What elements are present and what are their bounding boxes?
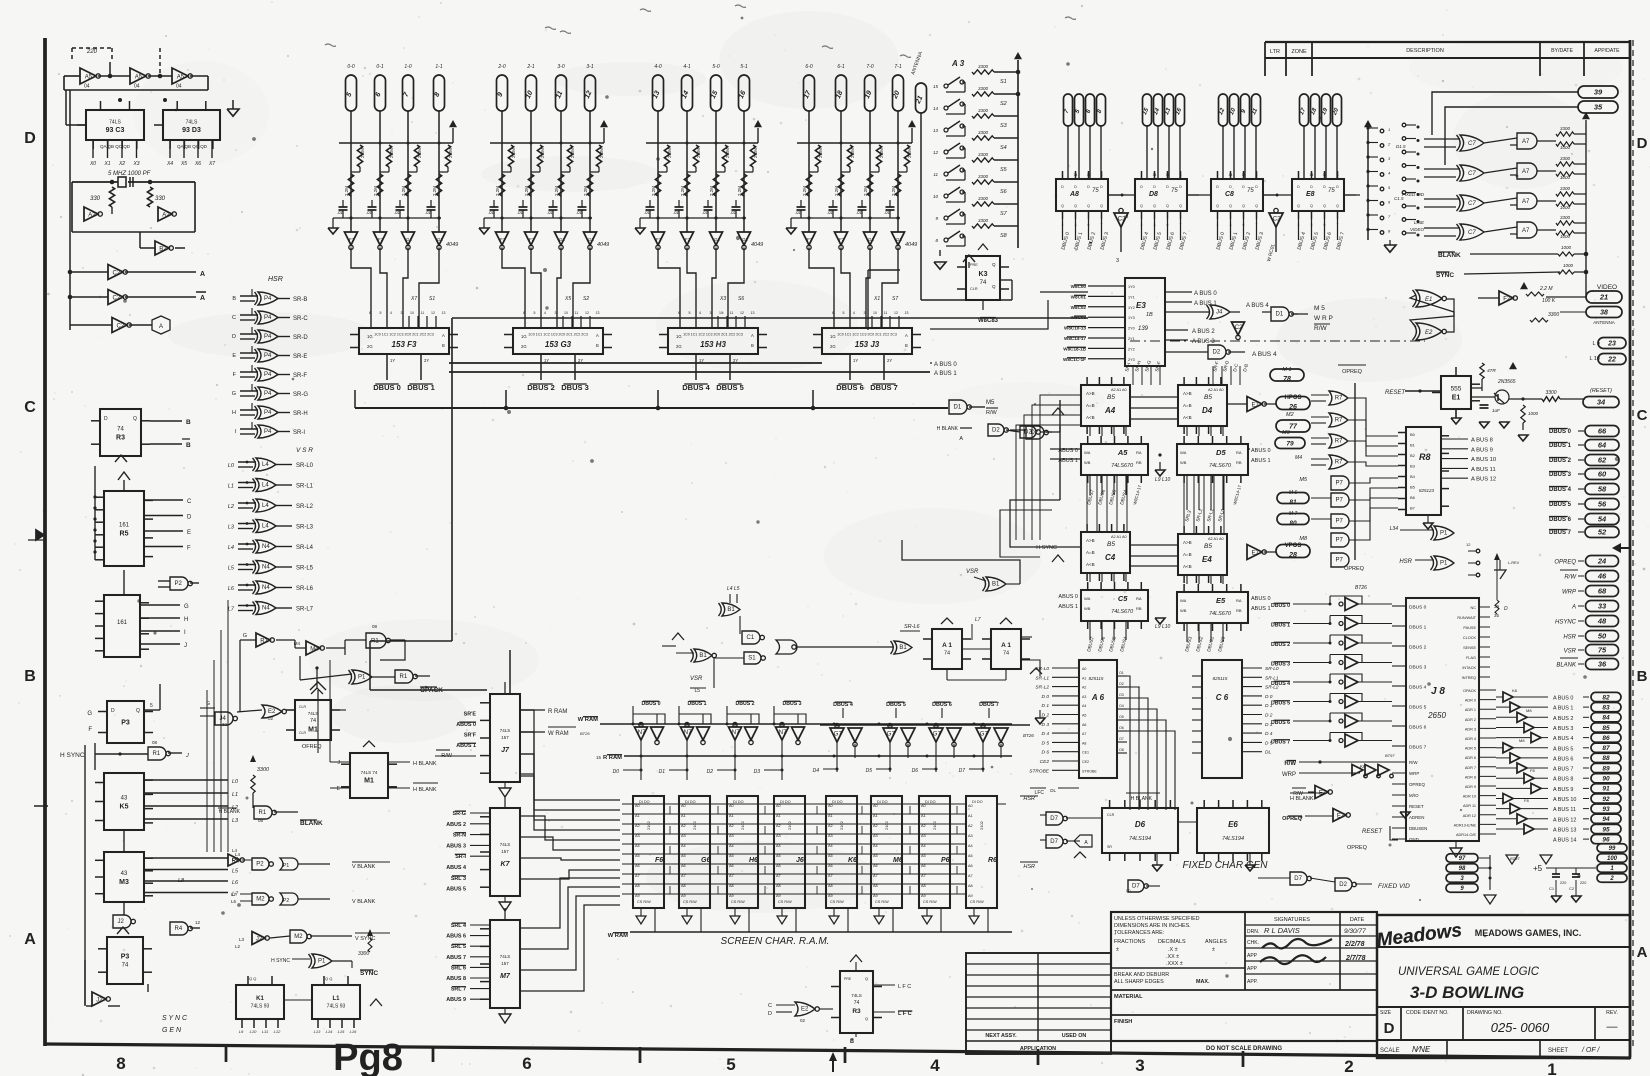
svg-text:S Y N C: S Y N C: [162, 1015, 188, 1022]
svg-text:90: 90: [1602, 776, 1610, 783]
svg-text:M5: M5: [986, 400, 995, 406]
svg-text:RA: RA: [1136, 596, 1142, 601]
svg-text:DBUS 1: DBUS 1: [1549, 443, 1572, 449]
svg-text:A2 A1 A0: A2 A1 A0: [1111, 388, 1127, 392]
svg-text:A3: A3: [635, 834, 640, 838]
svg-text:2.2M: 2.2M: [737, 186, 742, 196]
svg-text:78: 78: [1283, 376, 1291, 383]
svg-text:83: 83: [1602, 704, 1610, 711]
svg-text:SRL 7: SRL 7: [451, 987, 466, 993]
svg-text:G1: G1: [406, 237, 413, 242]
svg-text:SIGNATURES: SIGNATURES: [1274, 917, 1310, 923]
svg-text:2G: 2G: [367, 344, 373, 349]
svg-text:E7: E7: [1252, 402, 1260, 408]
svg-text:W8C83: W8C83: [978, 318, 999, 324]
svg-text:C: C: [1637, 407, 1648, 424]
svg-text:93: 93: [1602, 806, 1610, 813]
svg-text:V S R: V S R: [296, 447, 313, 454]
svg-text:SR-G: SR-G: [293, 392, 308, 398]
svg-text:BLANK: BLANK: [1438, 252, 1461, 259]
svg-text:1C0 1C1 1C2 1C3 2C0 2C1 2C2 2C: 1C0 1C1 1C2 1C3 2C0 2C1 2C2 2C3: [683, 333, 743, 337]
svg-text:F8: F8: [1530, 768, 1535, 773]
svg-text:A7: A7: [873, 874, 878, 878]
svg-text:1Y3: 1Y3: [1128, 316, 1135, 320]
svg-text:D: D: [1637, 135, 1648, 152]
svg-text:DBUS 3: DBUS 3: [1409, 665, 1427, 671]
svg-text:HPOS: HPOS: [1284, 395, 1301, 401]
svg-text:M5: M5: [1299, 477, 1308, 483]
svg-text:Q: Q: [865, 976, 868, 981]
svg-text:A2: A2: [873, 824, 878, 828]
svg-text:A BUS 2: A BUS 2: [1192, 329, 1215, 335]
svg-text:3300: 3300: [257, 767, 270, 773]
svg-text:1G: 1G: [367, 334, 373, 339]
svg-text:3300: 3300: [978, 86, 989, 91]
svg-text:D3: D3: [754, 769, 761, 775]
svg-text:A>B: A>B: [1183, 391, 1192, 396]
svg-text:153 H3: 153 H3: [700, 340, 726, 349]
svg-text:CE2: CE2: [1082, 760, 1089, 764]
svg-text:DRN.: DRN.: [1247, 929, 1259, 935]
svg-text:DBUS 1: DBUS 1: [1409, 625, 1427, 631]
svg-text:X7: X7: [208, 161, 215, 167]
svg-text:10: 10: [564, 311, 568, 315]
svg-text:.01: .01: [702, 210, 708, 215]
svg-text:SR-H: SR-H: [293, 411, 308, 417]
svg-text:DBUS 7: DBUS 7: [1409, 745, 1427, 751]
svg-text:04: 04: [134, 84, 140, 90]
svg-text:W RAM: W RAM: [548, 731, 569, 737]
svg-text:C7: C7: [1468, 230, 1476, 236]
svg-text:X2: X2: [118, 161, 125, 167]
svg-text:CLR: CLR: [299, 705, 306, 709]
svg-text:HSR: HSR: [1023, 864, 1035, 870]
svg-text:A3: A3: [776, 834, 781, 838]
svg-text:74LS 93: 74LS 93: [251, 1003, 270, 1009]
svg-text:1G: 1G: [830, 334, 836, 339]
svg-text:D 0: D 0: [1042, 694, 1050, 700]
svg-text:ABUS 1: ABUS 1: [1058, 604, 1078, 610]
svg-text:3300: 3300: [978, 218, 989, 223]
svg-text:RA: RA: [1136, 450, 1142, 455]
svg-text:2.2M: 2.2M: [554, 186, 559, 196]
svg-text:2.2M: 2.2M: [401, 186, 406, 196]
svg-text:HSR: HSR: [268, 276, 283, 283]
svg-text:60: 60: [1598, 470, 1607, 479]
svg-text:Pg8: Pg8: [333, 1037, 403, 1076]
svg-text:SR-F: SR-F: [293, 373, 307, 379]
svg-text:2102: 2102: [979, 820, 984, 830]
svg-text:SR-L6: SR-L6: [296, 586, 314, 592]
svg-text:D: D: [1504, 606, 1508, 612]
svg-text:A BUS 13: A BUS 13: [1553, 827, 1576, 833]
svg-text:74LS 74: 74LS 74: [361, 770, 378, 775]
svg-text:ADR 8: ADR 8: [1465, 775, 1476, 779]
svg-text:BLANK: BLANK: [1556, 663, 1577, 669]
svg-text:6: 6: [523, 311, 525, 315]
svg-text:SR-N: SR-N: [453, 833, 466, 839]
svg-text:Q: Q: [992, 262, 996, 267]
svg-text:C5: C5: [1118, 594, 1128, 603]
svg-text:P7: P7: [1336, 558, 1344, 564]
svg-text:2102: 2102: [692, 820, 697, 830]
svg-text:E2: E2: [1425, 330, 1433, 336]
svg-text:H SYNC: H SYNC: [60, 752, 85, 759]
svg-text:DBUS 5: DBUS 5: [1549, 502, 1572, 508]
svg-text:A BUS 0: A BUS 0: [934, 362, 957, 368]
svg-text:A5: A5: [828, 854, 833, 858]
svg-text:V BLANK: V BLANK: [352, 864, 376, 870]
svg-text:2: 2: [1609, 876, 1614, 882]
svg-text:220: 220: [1560, 881, 1566, 885]
svg-text:R/W: R/W: [1314, 325, 1328, 332]
svg-text:Q: Q: [1100, 204, 1103, 208]
svg-text:Q: Q: [1336, 204, 1339, 208]
svg-text:WA: WA: [1084, 450, 1091, 455]
svg-text:P4: P4: [264, 429, 272, 435]
svg-text:J7: J7: [501, 747, 510, 754]
svg-text:TOLERANCES ARE:: TOLERANCES ARE:: [1114, 930, 1164, 936]
svg-text:DBUS 5: DBUS 5: [1409, 705, 1427, 711]
svg-text:SRL 6: SRL 6: [451, 965, 466, 971]
svg-text:48: 48: [1597, 617, 1607, 626]
svg-text:74: 74: [944, 651, 950, 657]
svg-text:J6: J6: [796, 857, 804, 864]
svg-text:Q: Q: [1074, 204, 1077, 208]
svg-text:A2 A1 A0: A2 A1 A0: [1111, 535, 1127, 539]
svg-text:3300: 3300: [358, 951, 369, 957]
svg-text:R/W: R/W: [1284, 761, 1296, 767]
svg-text:81: 81: [1289, 499, 1297, 506]
svg-text:SR-L2: SR-L2: [296, 504, 314, 510]
svg-text:A BUS 3: A BUS 3: [1553, 726, 1573, 732]
svg-text:A8: A8: [635, 884, 640, 888]
svg-text:QA QB QC QD: QA QB QC QD: [177, 144, 208, 149]
svg-text:025- 0060: 025- 0060: [1491, 1020, 1550, 1035]
svg-text:87: 87: [1602, 745, 1610, 752]
svg-text:12: 12: [894, 311, 898, 315]
svg-text:A: A: [905, 333, 908, 338]
svg-text:A BUS 14: A BUS 14: [1553, 838, 1576, 844]
svg-text:D4: D4: [1202, 406, 1213, 415]
svg-text:C: C: [187, 499, 192, 505]
svg-text:L2: L2: [228, 504, 234, 510]
svg-text:R/W: R/W: [1409, 760, 1418, 765]
svg-text:0-1: 0-1: [376, 64, 383, 70]
svg-text:RUN/WAIT: RUN/WAIT: [1457, 616, 1476, 620]
svg-text:M4: M4: [310, 646, 319, 652]
svg-text:825123: 825123: [1419, 488, 1435, 493]
svg-text:DI DO: DI DO: [925, 800, 936, 804]
svg-text:J2: J2: [256, 936, 263, 942]
svg-text:A BUS 9: A BUS 9: [1471, 447, 1493, 453]
svg-text:P4: P4: [264, 296, 272, 302]
svg-text:1G: 1G: [521, 334, 527, 339]
svg-text:A BUS 6: A BUS 6: [1553, 756, 1573, 762]
svg-text:E7: E7: [1252, 550, 1260, 556]
svg-text:.XXX ±: .XXX ±: [1166, 961, 1183, 967]
svg-text:V SYNC: V SYNC: [355, 936, 376, 942]
svg-text:A BUS 12: A BUS 12: [1553, 817, 1576, 823]
svg-text:G2: G2: [742, 237, 749, 242]
svg-text:2Y1: 2Y1: [1128, 337, 1135, 341]
svg-text:F1: F1: [500, 237, 506, 242]
svg-text:100 K: 100 K: [1542, 298, 1556, 304]
svg-text:S6: S6: [738, 296, 744, 302]
svg-text:Q: Q: [1061, 204, 1064, 208]
svg-text:ABUS 9: ABUS 9: [446, 997, 466, 1003]
svg-text:C2: C2: [117, 323, 125, 329]
svg-text:CS R/W: CS R/W: [778, 900, 792, 904]
svg-text:4-1: 4-1: [683, 64, 690, 70]
svg-text:2-1: 2-1: [526, 64, 534, 70]
svg-text:A BUS 1: A BUS 1: [1553, 706, 1573, 712]
svg-text:4049: 4049: [446, 242, 458, 248]
svg-text:DBUS 4: DBUS 4: [1549, 487, 1572, 493]
svg-text:5-1: 5-1: [740, 64, 747, 70]
svg-text:A8: A8: [1082, 741, 1086, 745]
svg-text:2102: 2102: [787, 820, 792, 830]
svg-text:38: 38: [1600, 310, 1608, 317]
svg-text:A1: A1: [776, 814, 781, 818]
svg-text:2.2M: 2.2M: [540, 148, 545, 158]
svg-text:R7: R7: [1335, 418, 1343, 424]
svg-text:D1: D1: [1276, 312, 1284, 318]
svg-text:S5: S5: [1000, 167, 1008, 173]
svg-text:X5: X5: [564, 296, 571, 302]
svg-text:A: A: [751, 333, 754, 338]
svg-text:74LS670: 74LS670: [1209, 611, 1232, 617]
svg-text:H BLANK: H BLANK: [413, 787, 437, 793]
svg-text:2102: 2102: [884, 820, 889, 830]
svg-text:DL: DL: [1265, 750, 1271, 756]
svg-text:SR-G: SR-G: [453, 811, 466, 817]
svg-text:C7: C7: [1468, 201, 1476, 207]
svg-text:K6: K6: [848, 857, 857, 864]
svg-text:4049: 4049: [905, 242, 917, 248]
svg-text:.01: .01: [517, 210, 523, 215]
svg-text:ADR 2: ADR 2: [1465, 718, 1476, 722]
svg-text:A6: A6: [729, 864, 734, 868]
svg-text:2.2M: 2.2M: [524, 186, 529, 196]
svg-text:24: 24: [1597, 557, 1607, 566]
svg-text:M 7: M 7: [1289, 511, 1298, 517]
svg-text:DBUS 6: DBUS 6: [932, 702, 952, 708]
svg-text:+5: +5: [1533, 864, 1543, 873]
svg-text:74LS194: 74LS194: [1222, 836, 1244, 842]
svg-text:13: 13: [905, 311, 909, 315]
svg-text:BT97: BT97: [1385, 753, 1395, 758]
svg-text:X6: X6: [194, 161, 201, 167]
svg-text:5-0: 5-0: [712, 64, 719, 70]
svg-text:DI DO: DI DO: [877, 800, 888, 804]
svg-text:220: 220: [1580, 881, 1586, 885]
svg-text:X5: X5: [180, 161, 187, 167]
svg-text:A BUS 10: A BUS 10: [1553, 797, 1576, 803]
svg-text:.01: .01: [547, 210, 553, 215]
svg-text:E: E: [232, 353, 236, 359]
svg-text:74LS: 74LS: [308, 711, 319, 716]
svg-text:D1: D1: [954, 405, 962, 411]
svg-text:Q: Q: [1297, 204, 1300, 208]
svg-text:.01: .01: [795, 210, 801, 215]
svg-text:L1: L1: [232, 792, 238, 798]
svg-text:13: 13: [751, 311, 755, 315]
svg-text:74LS: 74LS: [851, 993, 862, 998]
svg-text:11: 11: [1166, 173, 1170, 177]
svg-text:9/30/77: 9/30/77: [1344, 928, 1366, 935]
svg-text:8: 8: [1180, 173, 1182, 177]
svg-text:DBUS 6: DBUS 6: [1549, 517, 1572, 523]
svg-text:X4: X4: [166, 161, 173, 167]
svg-text:R8: R8: [1419, 452, 1431, 462]
svg-text:157: 157: [501, 961, 509, 966]
svg-text:WA: WA: [1180, 598, 1187, 603]
svg-text:OPREQ: OPREQ: [1344, 566, 1365, 572]
svg-text:Q: Q: [1310, 204, 1313, 208]
svg-text:DI DO: DI DO: [832, 800, 843, 804]
svg-text:1000: 1000: [1560, 175, 1571, 180]
svg-text:PAUSE: PAUSE: [1463, 626, 1476, 630]
svg-text:K8: K8: [1360, 764, 1366, 769]
svg-text:3-D BOWLING: 3-D BOWLING: [1410, 983, 1524, 1002]
svg-text:INTACK: INTACK: [1462, 666, 1476, 670]
svg-text:DO NOT SCALE DRAWING: DO NOT SCALE DRAWING: [1206, 1046, 1282, 1052]
svg-text:S2: S2: [1000, 101, 1007, 107]
svg-text:FLAG: FLAG: [1466, 656, 1476, 660]
svg-text:74: 74: [117, 427, 124, 433]
svg-text:79: 79: [1286, 440, 1294, 447]
svg-text:ABUS 1: ABUS 1: [456, 743, 476, 749]
svg-text:UNIVERSAL GAME LOGIC: UNIVERSAL GAME LOGIC: [1398, 966, 1540, 978]
svg-text:A3: A3: [729, 834, 734, 838]
svg-text:DBUS 5: DBUS 5: [886, 702, 906, 708]
svg-text:P3: P3: [121, 953, 130, 960]
svg-text:D: D: [1384, 1020, 1395, 1037]
svg-text:A0: A0: [968, 804, 973, 808]
svg-text:2Y2: 2Y2: [1128, 347, 1135, 351]
svg-text:2650: 2650: [1427, 711, 1446, 720]
svg-text:O6: O6: [1119, 726, 1124, 730]
svg-text:G7: G7: [834, 732, 843, 738]
svg-text:B1: B1: [992, 582, 1000, 588]
svg-text:HSR: HSR: [1563, 635, 1576, 641]
svg-text:OPACK: OPACK: [1463, 689, 1476, 693]
svg-text:E7: E7: [1337, 813, 1345, 819]
svg-text:CHK.: CHK.: [1247, 940, 1259, 946]
svg-text:ADR 11: ADR 11: [1463, 804, 1476, 808]
svg-text:74LS 93: 74LS 93: [327, 1003, 346, 1009]
svg-text:80: 80: [1289, 520, 1297, 527]
svg-text:1: 1: [1141, 173, 1143, 177]
svg-text:Q: Q: [1242, 204, 1245, 208]
svg-text:M1: M1: [308, 726, 318, 733]
svg-text:A BUS 3: A BUS 3: [1192, 339, 1215, 345]
svg-text:A6: A6: [681, 864, 686, 868]
svg-text:C1: C1: [1549, 886, 1555, 891]
svg-text:74LS: 74LS: [500, 728, 511, 733]
svg-text:X3: X3: [719, 296, 726, 302]
svg-text:ABUS 2: ABUS 2: [446, 822, 466, 828]
svg-text:A8: A8: [681, 884, 686, 888]
svg-text:RA: RA: [1236, 450, 1242, 455]
svg-text:A7: A7: [1522, 199, 1530, 205]
svg-text:D2: D2: [1213, 350, 1221, 356]
svg-text:2.2M: 2.2M: [360, 148, 365, 158]
svg-text:A7: A7: [681, 874, 686, 878]
svg-text:3300: 3300: [978, 174, 989, 179]
svg-text:77: 77: [1289, 424, 1298, 431]
svg-text:H: H: [184, 617, 188, 623]
svg-text:R4: R4: [175, 926, 183, 932]
svg-text:CS R/W: CS R/W: [970, 900, 984, 904]
svg-text:DBUS 3: DBUS 3: [1549, 472, 1572, 478]
svg-text:FINISH: FINISH: [1114, 1019, 1132, 1025]
svg-text:A BUS 8: A BUS 8: [1553, 777, 1573, 783]
svg-text:2.2M: 2.2M: [570, 148, 575, 158]
svg-text:4049: 4049: [597, 242, 609, 248]
svg-text:2102: 2102: [646, 820, 651, 830]
svg-text:A9: A9: [828, 894, 833, 898]
svg-text:M7: M7: [500, 973, 511, 980]
svg-text:B2: B2: [1410, 453, 1416, 458]
svg-text:74LS: 74LS: [109, 119, 121, 125]
svg-text:7-1: 7-1: [894, 64, 901, 70]
svg-text:D4: D4: [813, 768, 820, 774]
svg-text:SR'F: SR'F: [464, 733, 477, 739]
svg-text:J4: J4: [1216, 310, 1223, 316]
svg-text:C2: C2: [1569, 886, 1575, 891]
svg-text:D7: D7: [1050, 839, 1058, 845]
svg-text:C2: C2: [113, 295, 121, 301]
svg-text:A0: A0: [776, 804, 781, 808]
svg-text:2.2M: 2.2M: [907, 148, 912, 158]
svg-text:H BLANK: H BLANK: [937, 426, 959, 432]
svg-text:1000: 1000: [1560, 205, 1571, 210]
svg-text:F: F: [88, 727, 92, 733]
svg-text:R L DAVIS: R L DAVIS: [1264, 926, 1300, 935]
svg-text:E5: E5: [1216, 596, 1226, 605]
svg-text:ANGLES: ANGLES: [1205, 939, 1227, 945]
svg-text:MATERIAL: MATERIAL: [1114, 994, 1143, 1000]
svg-text:SRL 5: SRL 5: [451, 944, 466, 950]
svg-text:A: A: [159, 324, 163, 330]
svg-text:L6: L6: [228, 586, 235, 592]
svg-text:L5: L5: [228, 566, 235, 572]
svg-text:WB: WB: [1180, 460, 1187, 465]
svg-text:3300: 3300: [1548, 312, 1559, 318]
svg-text:O4: O4: [1119, 704, 1124, 708]
svg-text:DL: DL: [1050, 788, 1056, 793]
svg-text:04: 04: [1124, 214, 1129, 219]
svg-text:H SYNC: H SYNC: [1036, 545, 1057, 551]
svg-text:.01: .01: [673, 210, 679, 215]
svg-text:R/W: R/W: [986, 410, 998, 416]
svg-text:62: 62: [1598, 456, 1607, 465]
svg-text:A=B: A=B: [1183, 552, 1192, 557]
svg-text:6: 6: [522, 1054, 531, 1073]
svg-text:M 5: M 5: [1314, 305, 1325, 312]
svg-text:2.2M: 2.2M: [879, 148, 884, 158]
svg-text:5: 5: [534, 311, 536, 315]
svg-text:S2: S2: [583, 296, 589, 302]
svg-text:ADREN: ADREN: [1409, 815, 1424, 820]
svg-text:CLR: CLR: [299, 731, 306, 735]
svg-text:N7: N7: [684, 730, 692, 736]
svg-text:VIDEO: VIDEO: [1597, 284, 1617, 291]
svg-text:A BUS 4: A BUS 4: [1252, 351, 1277, 358]
svg-text:C4: C4: [1105, 553, 1116, 562]
